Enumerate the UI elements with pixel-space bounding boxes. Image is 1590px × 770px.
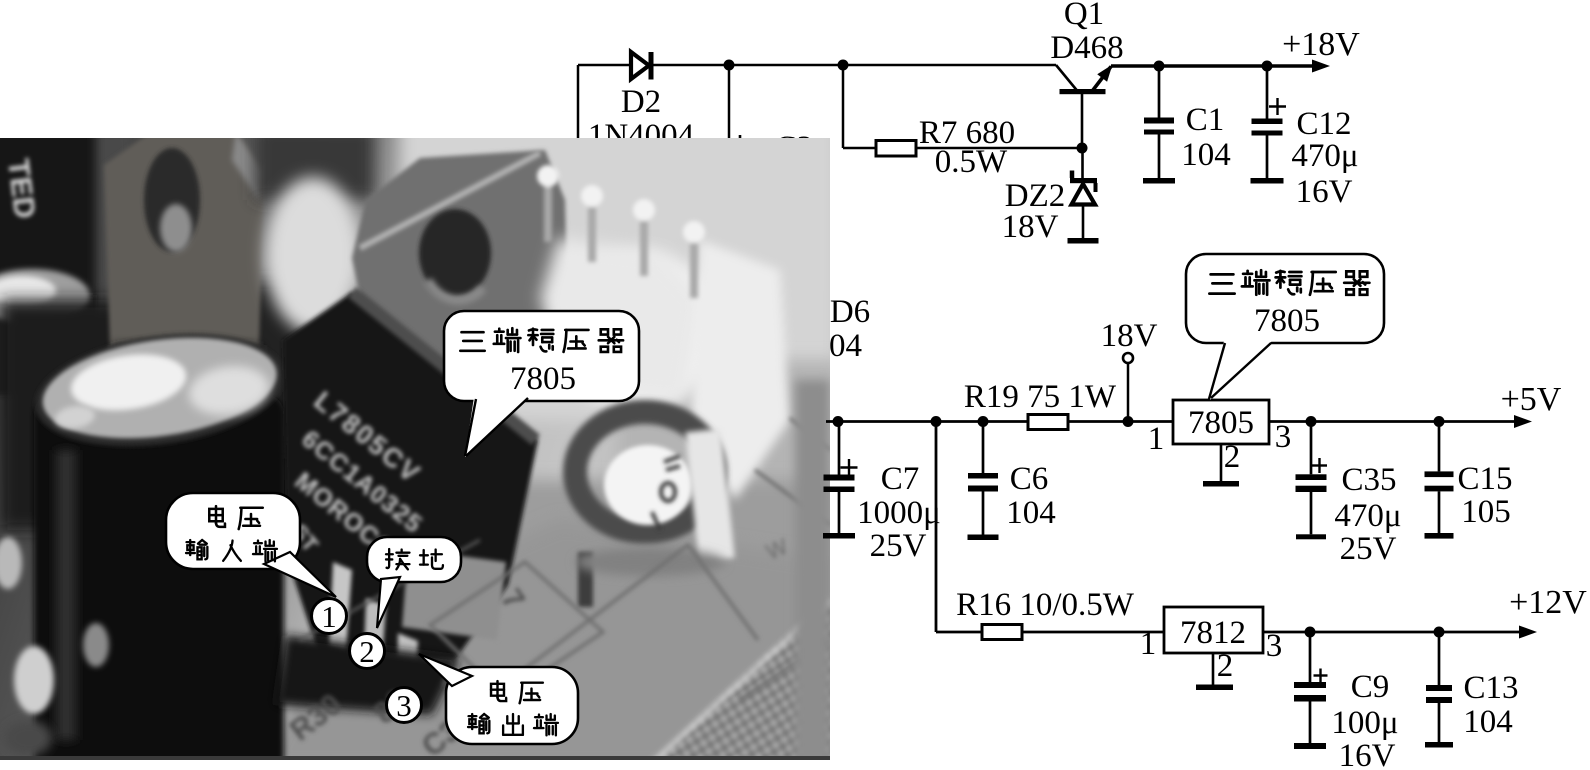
svg-text:0.5W: 0.5W: [935, 144, 1008, 180]
svg-text:1: 1: [1140, 626, 1157, 662]
svg-text:C15: C15: [1457, 461, 1512, 497]
svg-text:25V: 25V: [1340, 531, 1397, 567]
svg-text:Q1: Q1: [1064, 0, 1104, 32]
svg-text:D6: D6: [830, 294, 870, 330]
svg-text:3: 3: [396, 688, 412, 723]
svg-text:7812: 7812: [1180, 615, 1246, 651]
svg-text:104: 104: [1006, 495, 1056, 531]
svg-text:1: 1: [321, 599, 337, 634]
svg-text:470μ: 470μ: [1334, 498, 1401, 534]
svg-text:7805: 7805: [1188, 405, 1254, 441]
svg-text:16V: 16V: [1296, 174, 1353, 210]
svg-text:+12V: +12V: [1509, 584, 1587, 621]
svg-text:105: 105: [1461, 494, 1511, 530]
svg-text:1000μ: 1000μ: [857, 495, 941, 531]
svg-text:16V: 16V: [1339, 738, 1396, 770]
svg-text:C12: C12: [1296, 106, 1351, 142]
svg-text:7805: 7805: [510, 361, 576, 397]
svg-text:104: 104: [1463, 704, 1513, 740]
svg-text:100μ: 100μ: [1331, 705, 1398, 741]
svg-text:R19 75 1W: R19 75 1W: [964, 379, 1117, 415]
svg-text:C9: C9: [1351, 669, 1390, 705]
svg-text:D468: D468: [1050, 30, 1123, 66]
svg-text:2: 2: [359, 634, 375, 669]
svg-text:2: 2: [1224, 439, 1241, 475]
svg-text:25V: 25V: [870, 528, 927, 564]
svg-text:18V: 18V: [1002, 209, 1059, 245]
svg-text:C7: C7: [881, 461, 920, 497]
svg-text:+18V: +18V: [1282, 26, 1360, 63]
svg-text:C13: C13: [1463, 670, 1518, 706]
svg-text:2: 2: [1217, 648, 1234, 684]
svg-text:C35: C35: [1341, 462, 1396, 498]
svg-text:C6: C6: [1010, 461, 1049, 497]
svg-text:3: 3: [1275, 419, 1292, 455]
svg-text:3: 3: [1266, 628, 1283, 664]
svg-text:+5V: +5V: [1501, 381, 1562, 418]
svg-text:1: 1: [1148, 421, 1165, 457]
svg-text:470μ: 470μ: [1291, 138, 1358, 174]
svg-text:18V: 18V: [1101, 318, 1158, 354]
svg-text:C1: C1: [1186, 102, 1225, 138]
svg-text:D2: D2: [621, 84, 661, 120]
svg-text:104: 104: [1181, 137, 1231, 173]
svg-text:7805: 7805: [1254, 303, 1320, 339]
svg-text:R16 10/0.5W: R16 10/0.5W: [956, 587, 1135, 623]
